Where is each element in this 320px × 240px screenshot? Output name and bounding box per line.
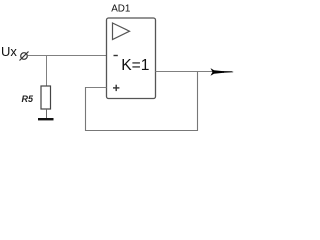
ground (38, 118, 54, 120)
wire: junction down to resistor R5 (46, 55, 48, 86)
op-amp U1 body (AD1 block) (107, 18, 156, 99)
wire: feedback loop (output down, left, up to plus input) (86, 72, 198, 131)
wire: feedback to plus input (86, 87, 107, 89)
svg-text:R5: R5 (22, 94, 34, 104)
input terminal (open circle with slash) (20, 52, 29, 61)
resistor R5 (box body) (41, 86, 51, 109)
wire: resistor to ground (46, 109, 48, 118)
wire: Ux terminal to op-amp minus input (28, 55, 107, 57)
svg-text:AD1: AD1 (111, 3, 131, 14)
output arrow (211, 68, 234, 76)
wire: op-amp output (156, 71, 233, 73)
svg-text:Ux: Ux (1, 44, 17, 59)
svg-text:K=1: K=1 (121, 57, 149, 74)
pin label plus (113, 85, 119, 91)
amplifier triangle symbol inside U1 (113, 23, 130, 40)
pin label minus (114, 55, 118, 57)
